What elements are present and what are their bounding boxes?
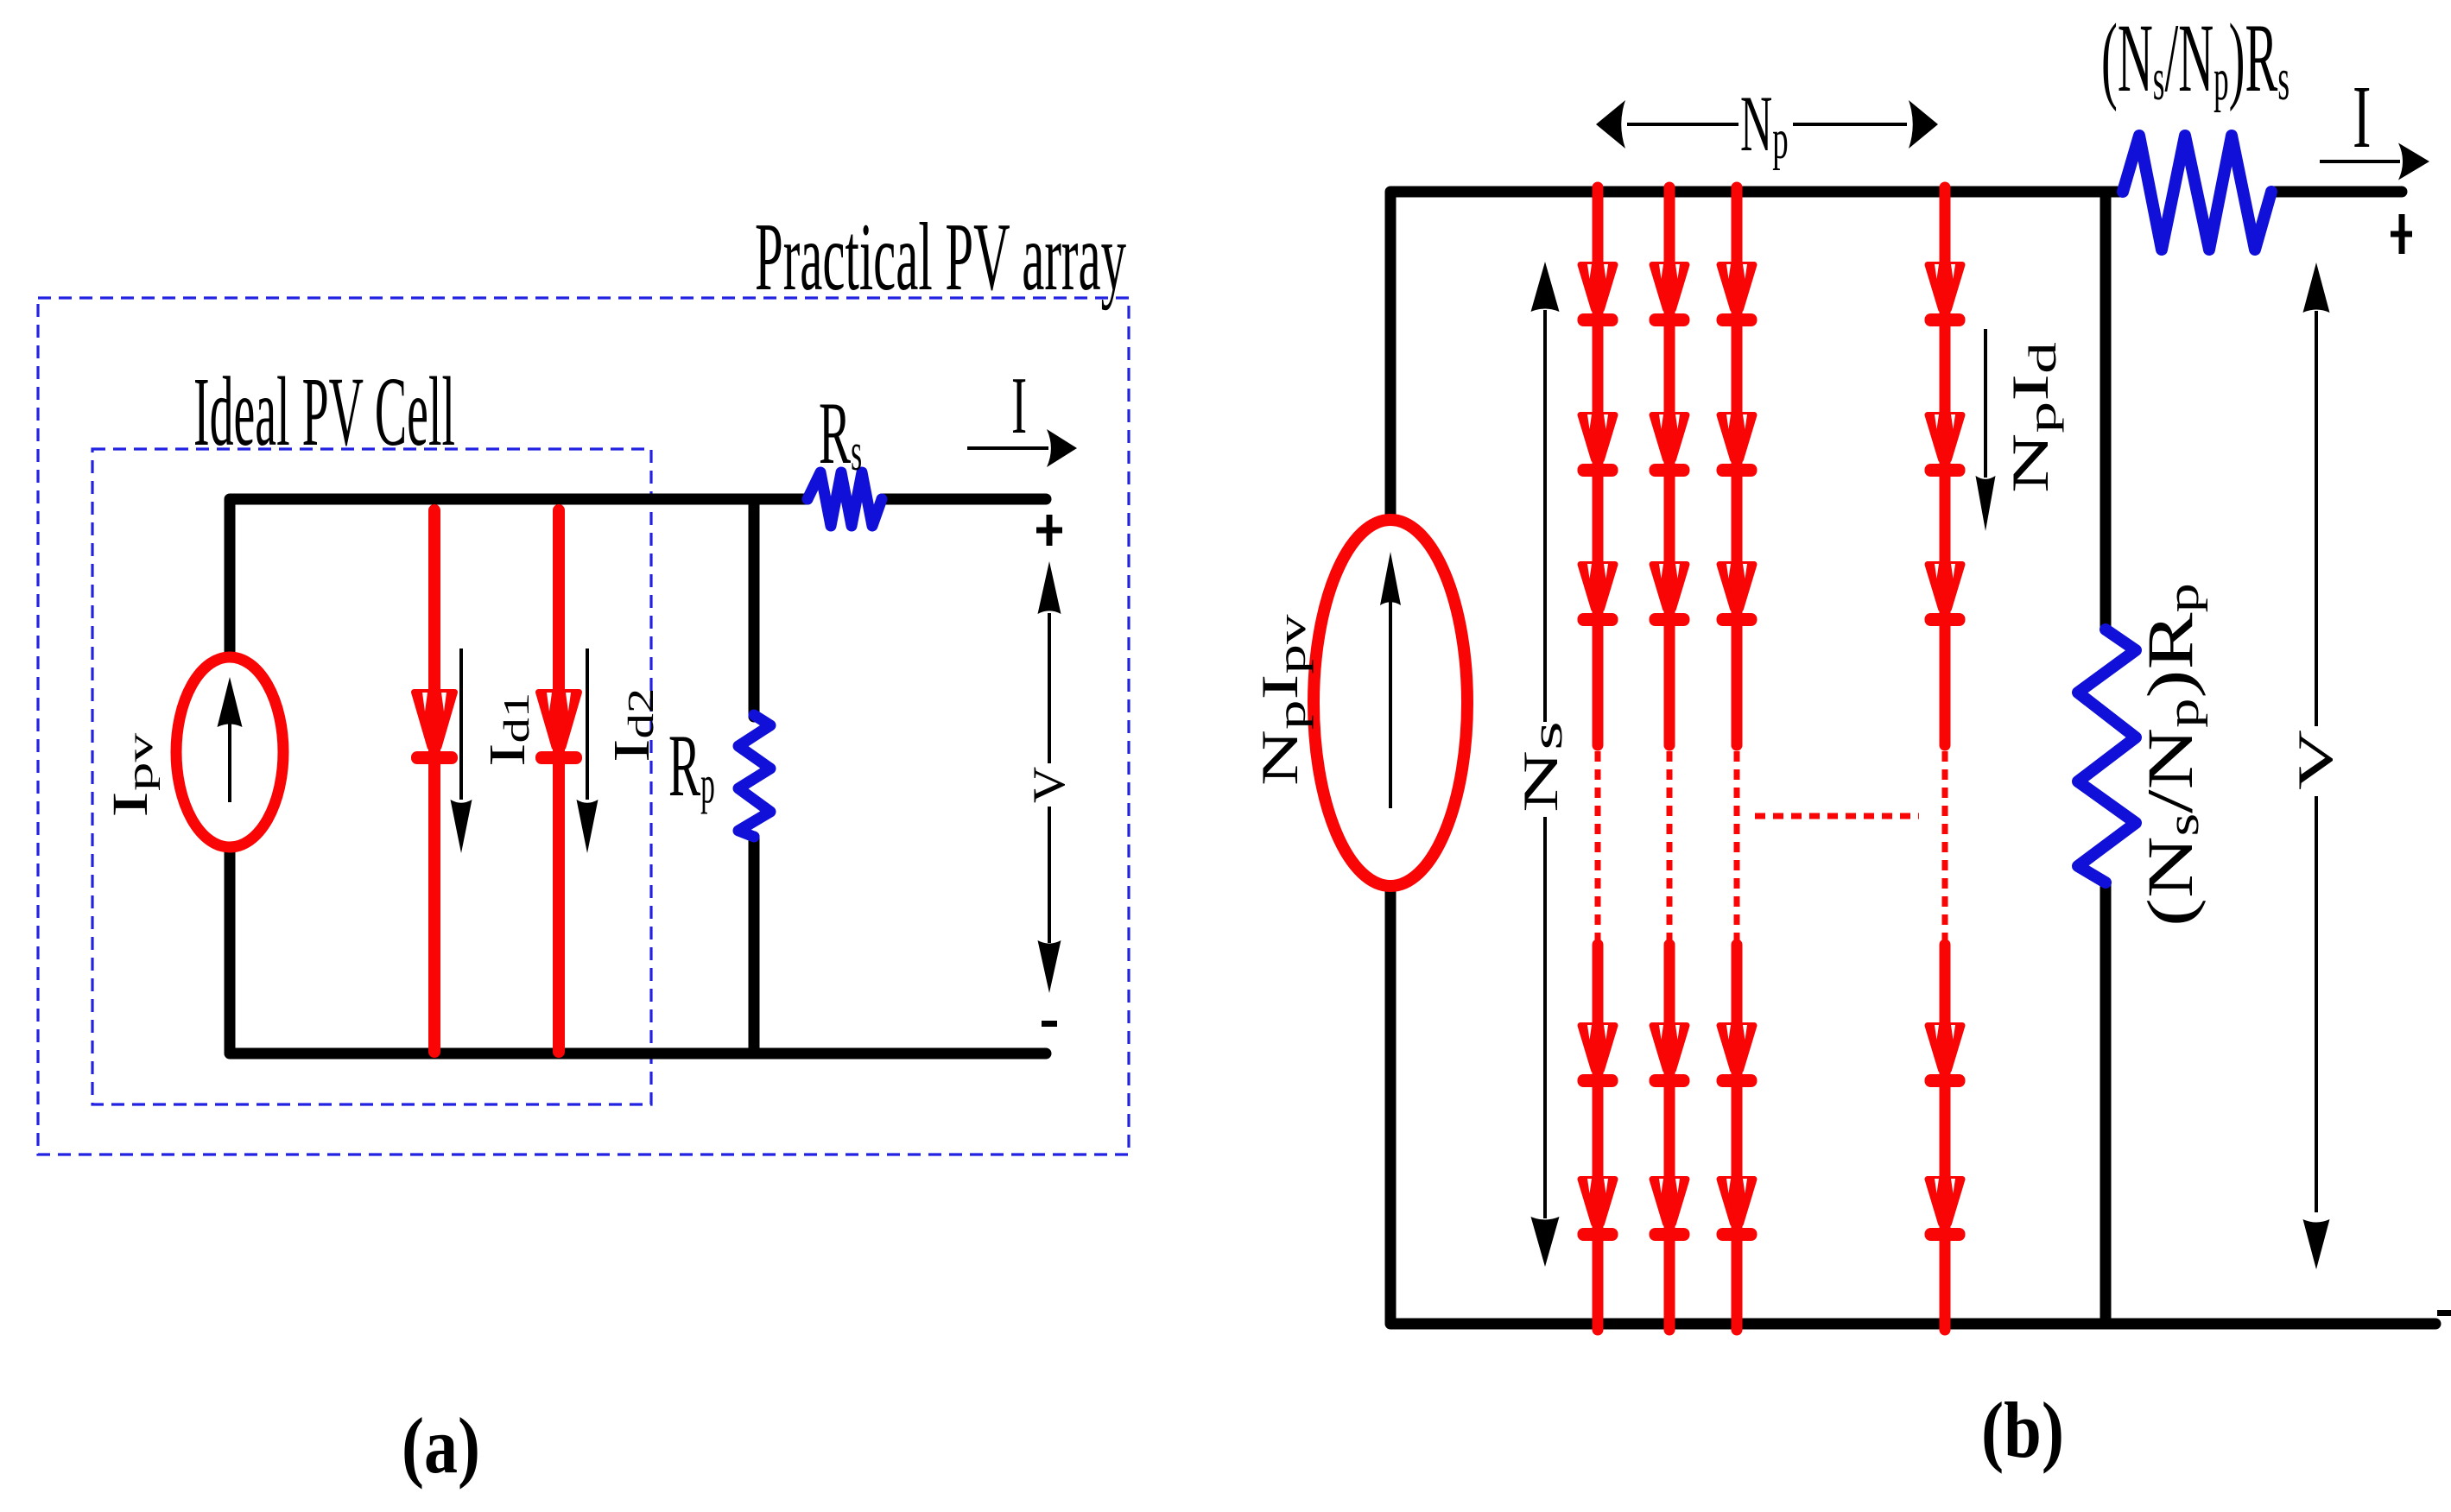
svg-text:V: V [2289, 730, 2343, 790]
svg-text:Ideal PV Cell: Ideal PV Cell [193, 357, 455, 466]
svg-text:(a): (a) [402, 1401, 480, 1490]
svg-text:I: I [2353, 66, 2371, 166]
svg-text:(Ns/Np)Rp: (Ns/Np)Rp [2134, 583, 2208, 927]
svg-text:Practical PV array: Practical PV array [755, 204, 1126, 311]
svg-text:V: V [1023, 767, 1074, 803]
svg-text:(b): (b) [1981, 1386, 2064, 1474]
svg-text:I: I [1011, 361, 1027, 451]
svg-text:(Ns/Np)Rs: (Ns/Np)Rs [2101, 4, 2289, 113]
